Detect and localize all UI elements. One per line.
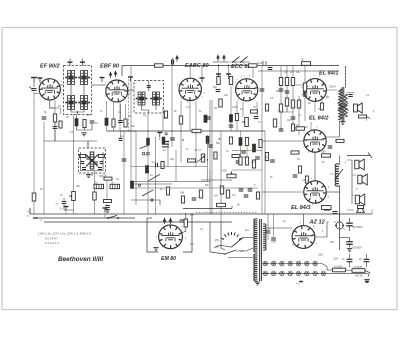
resistor R31 <box>204 115 207 123</box>
capacitor C8 <box>103 208 108 213</box>
svg-text:50k: 50k <box>180 191 185 195</box>
T3 cross <box>86 155 98 167</box>
wire tone section <box>201 179 232 181</box>
wire ecc right <box>258 70 339 72</box>
wire vertical 24 <box>228 66 230 76</box>
wire vertical 30 <box>261 66 263 214</box>
resistor R13 <box>249 64 258 67</box>
wire AZ12 out <box>315 222 329 237</box>
terminal circle 2 <box>138 184 140 186</box>
resistor R35 <box>232 155 240 158</box>
coil L3 <box>138 92 141 105</box>
wire vertical 26 <box>236 101 238 131</box>
resistor R1 <box>53 114 56 122</box>
speaker SP2 <box>355 159 365 170</box>
resistor R54 <box>352 269 365 273</box>
resistor R9 <box>93 192 96 200</box>
resistor R19 <box>291 78 294 86</box>
ground TR2 <box>255 282 260 285</box>
wire rail corner EBF <box>121 66 123 77</box>
capacitor C23 <box>239 189 244 191</box>
capacitor C6 2n <box>62 202 67 204</box>
svg-text:50/350V: 50/350V <box>353 225 364 229</box>
capacitor C37 <box>333 212 338 214</box>
wire speaker chain <box>351 160 353 204</box>
resistor R52 <box>184 219 187 227</box>
ground G8 <box>364 280 369 283</box>
svg-text:250: 250 <box>330 241 335 244</box>
switch diagonal 1 <box>140 145 149 148</box>
wire vertical 14 <box>171 66 173 147</box>
svg-text:100: 100 <box>287 119 292 122</box>
resistor R51 <box>359 115 367 118</box>
wire vertical 29 <box>256 102 258 115</box>
wire vertical 33 <box>286 66 288 112</box>
resistor R27 <box>265 104 268 111</box>
svg-text:AZ 12: AZ 12 <box>309 220 326 226</box>
speaker SP5 <box>357 206 365 213</box>
svg-text:EL 84/1: EL 84/1 <box>319 71 339 77</box>
wire driver v240 <box>240 131 242 138</box>
wire vertical 27 <box>242 102 244 117</box>
capacitor C42 <box>270 160 275 162</box>
svg-text:~0.0005: ~0.0005 <box>333 265 343 269</box>
svg-text:10n: 10n <box>243 156 248 159</box>
tube V9 AZ12 <box>292 226 315 249</box>
wire el84 bias <box>314 152 316 181</box>
resistor R29 <box>164 111 167 118</box>
resistor R26 <box>291 124 294 131</box>
coil L1b <box>81 71 84 85</box>
capacitor C16 <box>279 129 284 131</box>
wire vertical 34 <box>292 66 294 131</box>
capacitor C25 <box>192 198 197 200</box>
capacitor C24 <box>248 189 253 191</box>
ground G7 <box>347 249 352 252</box>
tube V3 EABC80 <box>179 78 201 100</box>
svg-text:EF 80/2: EF 80/2 <box>40 64 60 70</box>
svg-text:1M: 1M <box>190 214 193 217</box>
ground G11 <box>86 175 91 178</box>
resistor R63 <box>229 137 232 144</box>
resistor R30 <box>179 116 182 124</box>
capacitor C18 <box>260 89 265 91</box>
capacitor C36 <box>366 254 368 259</box>
svg-text:EL 84/3: EL 84/3 <box>291 205 311 211</box>
wire coil leads <box>339 156 341 166</box>
resistor R47 <box>305 176 308 183</box>
svg-text:2M: 2M <box>190 243 193 246</box>
resistor R44 <box>322 154 331 157</box>
wire EL2 to TR1 <box>326 121 339 137</box>
wire vertical 16 <box>189 101 191 131</box>
wire midband h188 <box>131 187 258 189</box>
wire EBF to T2 <box>127 89 134 91</box>
capacitor C40 stack <box>162 141 169 143</box>
svg-text:1-6: 1-6 <box>258 61 263 65</box>
wire fuse hook <box>365 271 370 277</box>
capacitor C22 <box>236 161 241 163</box>
wire T2 leads <box>142 105 149 110</box>
EBF tbar a <box>100 78 105 83</box>
wire AZ12 top <box>303 214 305 226</box>
capacitor C26 <box>244 195 249 197</box>
capacitor C29 <box>293 175 298 177</box>
trimmer pair <box>142 152 145 155</box>
output transformer TR1 primary <box>339 89 342 120</box>
wire vertical 3 <box>73 114 75 214</box>
capacitor C35 <box>349 254 351 259</box>
speaker SP4 <box>355 194 365 205</box>
grid stopper caps <box>216 74 221 79</box>
svg-text:1M: 1M <box>251 161 254 164</box>
resistor R34 <box>214 152 217 159</box>
wire midband h166 <box>131 166 207 168</box>
wire EL2 in <box>262 140 304 142</box>
svg-text:220V: 220V <box>329 85 336 89</box>
svg-text:30p: 30p <box>170 158 175 161</box>
ground G3 <box>105 210 110 213</box>
wire el3 out <box>326 191 339 193</box>
wire vertical 36 <box>304 66 306 121</box>
svg-text:110: 110 <box>245 229 249 232</box>
resistor R42 <box>161 162 164 169</box>
wire vertical 8 <box>123 131 125 214</box>
resistor R6 <box>112 119 115 127</box>
wire b+ rail right <box>330 213 372 215</box>
voltage selector S3 <box>239 238 242 239</box>
resistor R40 <box>256 192 259 199</box>
tweeter speaker SP1 <box>353 103 362 113</box>
tube V6 EL84/2 <box>304 130 326 152</box>
speaker SP3 <box>358 174 368 185</box>
wire bus riser left <box>29 208 31 214</box>
wire h y131b <box>107 130 137 132</box>
output transformer TR1 secondary <box>344 94 347 117</box>
wire midband v196 <box>195 131 197 167</box>
wire EF80 to T1 <box>61 84 64 86</box>
resistor R61 <box>162 137 165 144</box>
selector arrow <box>232 238 244 248</box>
wire mains bus 1 <box>30 213 330 215</box>
wire fm bottom <box>131 200 160 205</box>
capacitor C31 <box>348 95 353 97</box>
wire vertical 5 <box>94 171 96 214</box>
heater chain row 1 <box>263 261 268 266</box>
components below ECC <box>229 115 232 123</box>
capacitor C34 electrolytic <box>349 238 351 242</box>
resistor R38 <box>181 196 184 203</box>
coil L5 <box>90 152 94 169</box>
coil L2b <box>81 96 84 110</box>
wire sp1 hook <box>367 117 371 119</box>
wire mains bus 3 <box>44 221 232 223</box>
IF transformer T1 box <box>64 66 92 115</box>
wire el84 bias2 <box>314 101 316 112</box>
resistor R20 <box>285 98 288 106</box>
svg-text:2M: 2M <box>214 107 217 110</box>
wire ebf pins <box>106 101 108 118</box>
volume pot P2 <box>227 174 236 178</box>
resistor R3 <box>75 119 78 127</box>
capacitor C1 <box>42 117 47 119</box>
diode D2 <box>99 155 105 158</box>
wire vertical 20 <box>209 100 211 214</box>
coil L4 <box>153 92 156 105</box>
wire vertical 18 <box>189 66 191 78</box>
svg-text:127: 127 <box>240 250 245 253</box>
svg-text:2-3 2-4: 2-3 2-4 6-7 <box>45 237 58 241</box>
capacitor C33 electrolytic <box>349 218 351 223</box>
resistor R21 <box>291 100 294 108</box>
capacitor C7 <box>105 206 110 208</box>
svg-text:0.5M: 0.5M <box>221 169 227 173</box>
resistor R48 <box>336 139 344 142</box>
coil L2a <box>68 96 71 110</box>
switch S1 <box>108 215 117 218</box>
wire heater row1 <box>262 263 322 265</box>
field coil L8 <box>335 164 339 186</box>
capacitor C28 <box>122 159 127 161</box>
trimmer C-T2 <box>147 86 151 88</box>
capacitor C4 <box>118 121 123 123</box>
tube V8 EM80 <box>159 225 183 249</box>
svg-text:EBF 80: EBF 80 <box>100 64 120 70</box>
mark bottom right <box>365 281 369 283</box>
capacitor C38 <box>266 231 271 233</box>
wire h y131c <box>120 130 265 132</box>
wire vertical 31 <box>264 131 266 214</box>
svg-text:2M: 2M <box>87 114 90 117</box>
wire T3 internals <box>81 152 104 171</box>
choke L6 <box>94 184 104 188</box>
coil L1a <box>68 71 71 85</box>
wire mains bus 2 <box>33 217 135 219</box>
wire vertical 7 <box>119 101 121 131</box>
TR2 right winding <box>263 224 266 250</box>
capacitor C14 <box>303 94 308 96</box>
wire mains drop <box>210 222 225 254</box>
mark bottom mid <box>299 281 303 283</box>
TR1 crossing <box>338 103 349 111</box>
wire sp5 <box>347 209 354 211</box>
EBF tbar b <box>128 77 133 82</box>
switch diagonal 3 <box>142 190 153 196</box>
wire heater row2 <box>262 272 345 274</box>
wire speaker bus top <box>347 155 370 157</box>
capacitor C17 <box>268 68 273 70</box>
tube V5 EL84/1 <box>304 79 327 102</box>
capacitor C13 <box>285 91 290 93</box>
tick marks mid <box>182 139 184 141</box>
svg-text:220: 220 <box>318 253 323 257</box>
resistor R55 <box>322 206 332 210</box>
resistor R50 <box>320 103 323 110</box>
svg-text:1M: 1M <box>284 71 287 74</box>
resistor R53 <box>333 268 346 272</box>
resistor R62 <box>206 136 209 144</box>
svg-text:50/350V: 50/350V <box>352 246 363 250</box>
capacitor C3 <box>90 121 95 123</box>
trimmer C-T1b <box>80 62 85 65</box>
tube V7 EL84/3 <box>304 181 326 203</box>
ground G4 <box>340 122 345 125</box>
resistor R7 <box>124 119 127 127</box>
resistor R46 <box>298 166 301 173</box>
resistor R2 <box>59 121 62 128</box>
capacitor C21 <box>208 145 213 147</box>
wire vertical 4 <box>87 141 89 148</box>
resistor R41 <box>145 166 148 174</box>
wire mid join <box>76 115 78 119</box>
wire ecc to right <box>326 89 337 91</box>
wire vertical 12 <box>155 137 157 214</box>
capacitor C12 <box>279 89 284 91</box>
resistor R18 <box>285 78 288 86</box>
resistor R15 <box>217 77 220 85</box>
choke L7 <box>110 184 120 188</box>
wire cap2 branch <box>340 237 350 239</box>
svg-text:1M: 1M <box>214 194 218 198</box>
power transformer TR2 winding 1 <box>254 219 258 252</box>
wire vertical 6 <box>106 180 108 201</box>
resistor R67 <box>265 153 268 161</box>
resistor R60 <box>147 138 150 145</box>
wire vertical 22 <box>218 66 220 76</box>
wire EM80 cage <box>147 218 159 252</box>
antenna input <box>31 78 37 83</box>
heater chain row 2 <box>263 271 268 276</box>
wire vertical 21 <box>211 100 213 214</box>
wire vertical 35 <box>298 96 300 135</box>
svg-text:6-7 4-3: 6-7 4-3 1-4 <box>45 241 59 245</box>
svg-text:110V 1-2a, 127V 1-2a, 220V: 110V 1-2a, 127V 1-2a, 220V 1-2, 240V 1-2 <box>38 232 91 236</box>
tube V1 EF80 <box>39 79 60 100</box>
resistor R12 <box>155 64 164 67</box>
resistor R23 <box>297 100 300 108</box>
wire AZ12 plate <box>268 227 292 229</box>
TR2 core <box>259 219 261 281</box>
dash-dot divider <box>128 79 130 131</box>
wire cap stubs <box>267 214 269 230</box>
svg-text:Ph: Ph <box>215 239 219 243</box>
wire vertical 2 <box>54 100 56 141</box>
ratio detector T3 box <box>79 148 106 173</box>
ground G5 <box>153 248 158 251</box>
switch S2 contacts <box>233 57 240 63</box>
T3 plates <box>86 157 89 159</box>
wire vertical 17 <box>195 101 197 131</box>
wire vertical 37 <box>310 122 312 131</box>
svg-text:Beethoven II/III: Beethoven II/III <box>58 256 103 263</box>
output transformer TR1 core <box>341 87 343 121</box>
terminal circle 1 <box>165 133 167 135</box>
svg-text:EM 80: EM 80 <box>161 256 176 262</box>
EF80 tbar left <box>38 78 43 83</box>
wire vertical 1 <box>43 122 45 214</box>
cap to gnd x159 <box>157 133 162 138</box>
ground G1 <box>81 133 86 136</box>
capacitor C19 <box>206 117 211 119</box>
svg-text:1M: 1M <box>128 115 131 118</box>
svg-text:EL 84/2: EL 84/2 <box>309 116 329 122</box>
coil arrow <box>335 169 344 180</box>
wire em80 rail <box>183 208 232 210</box>
wire vertical 11 <box>147 113 149 214</box>
capacitor C10 <box>200 78 205 83</box>
resistor R22 <box>279 104 282 112</box>
wire midband v168 <box>167 140 169 167</box>
resistor R37 <box>199 190 202 198</box>
svg-text:0.3M: 0.3M <box>232 106 237 109</box>
svg-text:4/2.5A: 4/2.5A <box>355 274 363 278</box>
marks x120 <box>119 139 123 141</box>
svg-text:220: 220 <box>333 257 338 261</box>
capacitor C-T3b <box>98 168 102 170</box>
capacitor C8b <box>64 207 69 212</box>
wire fuse line <box>339 214 341 222</box>
EBF arrows <box>109 72 111 78</box>
wire top to TR1 <box>345 66 347 87</box>
resistor R8 150 <box>104 177 112 180</box>
wire em80 top <box>185 213 187 219</box>
wire vertical 10 <box>135 131 137 205</box>
svg-text:1a: 1a <box>216 245 220 249</box>
resistor R43 <box>130 181 133 189</box>
wire T1 internals <box>70 85 72 96</box>
resistor R5 <box>105 118 108 126</box>
resistor R24 <box>303 83 306 91</box>
resistor R4 <box>83 120 86 128</box>
double wire FM <box>131 181 210 183</box>
potentiometer P1 <box>72 192 76 201</box>
capacitor C9 top <box>172 60 174 65</box>
wire vertical 38 <box>345 66 347 88</box>
EM80 arrows <box>163 218 165 224</box>
capacitor C20 <box>216 90 221 92</box>
switch S4 phono <box>225 250 236 254</box>
capacitor C32 <box>180 220 185 222</box>
AM antenna posts <box>217 55 219 61</box>
resistor R45 <box>291 151 299 154</box>
resistor R33 <box>201 154 204 162</box>
capacitor C27 <box>156 163 158 167</box>
wire vertical 28 <box>252 66 254 78</box>
diode D1 <box>80 155 86 158</box>
wire vertical 19 <box>201 66 203 78</box>
capacitor C39 <box>271 238 276 240</box>
resistor R65 <box>166 187 169 195</box>
resistor R25 <box>273 119 276 127</box>
resistor R28 <box>192 129 201 132</box>
svg-text:~0.0005: ~0.0005 <box>353 265 363 269</box>
wire driver h150 <box>232 150 262 152</box>
wire h y131 <box>55 140 97 142</box>
wire top B+ rail <box>122 65 339 67</box>
resistor R39 <box>226 190 229 198</box>
resistor R16 <box>229 77 232 85</box>
tube V2 EBF80 <box>106 80 128 102</box>
wire EF80 cathode <box>50 100 55 108</box>
switch diagonal 2 <box>149 174 160 180</box>
wire vertical 25 <box>230 86 232 131</box>
tube V4 ECC83 <box>236 79 258 101</box>
wire midband v176 <box>175 150 177 182</box>
capacitor C-T3a <box>82 168 86 170</box>
selector curve <box>214 245 232 248</box>
wire heater tail <box>345 272 368 274</box>
svg-text:150: 150 <box>99 175 104 178</box>
